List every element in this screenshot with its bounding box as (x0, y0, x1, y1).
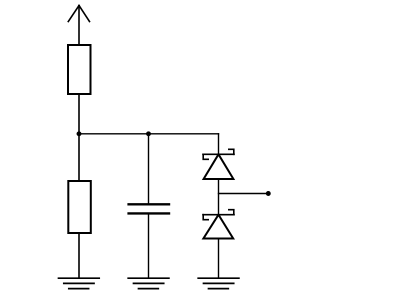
node output port (266, 191, 271, 196)
wire (218, 134, 220, 154)
wire (218, 179, 220, 215)
capacitor C1 (129, 204, 169, 213)
wire (148, 134, 150, 204)
wire (219, 193, 267, 195)
power supply arrow (68, 6, 89, 46)
wire (78, 94, 80, 181)
ground (198, 278, 239, 288)
wire (79, 133, 219, 135)
ground (128, 278, 169, 288)
diode D2 (schottky) (203, 210, 234, 239)
wire (78, 233, 80, 278)
ground (59, 278, 100, 288)
resistor R2 (68, 181, 91, 233)
node junction (146, 131, 151, 136)
wire (148, 215, 150, 279)
node junction (77, 131, 82, 136)
wire (218, 239, 220, 279)
resistor R1 (68, 45, 91, 94)
diode D1 (schottky) (203, 149, 234, 179)
